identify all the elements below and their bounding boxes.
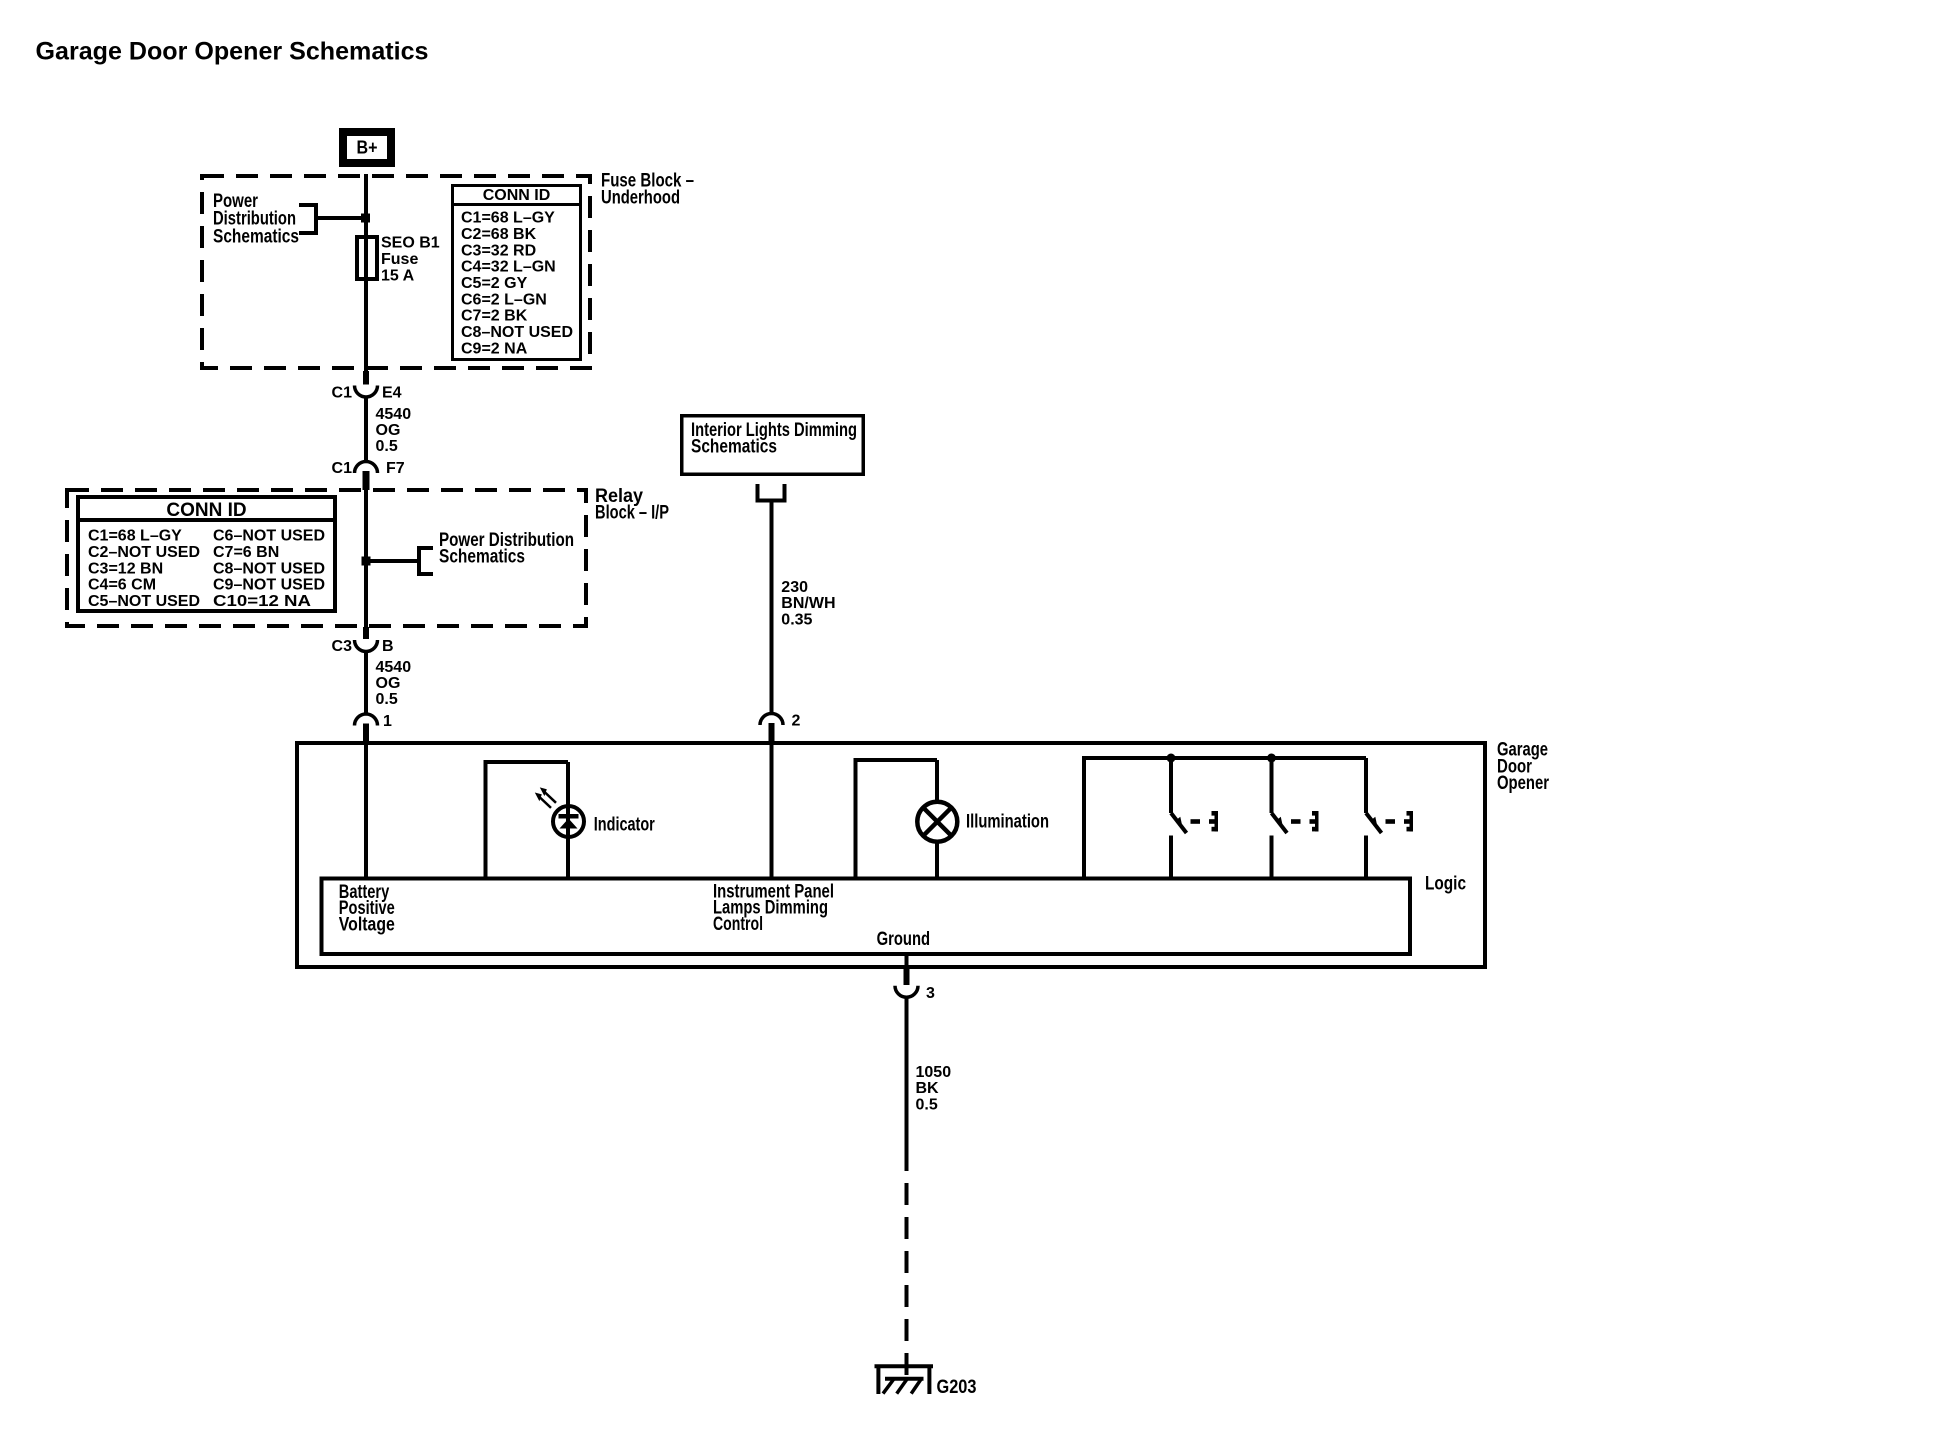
svg-text:C10=12 NA: C10=12 NA [213, 593, 312, 610]
svg-text:Control: Control [713, 914, 763, 935]
svg-text:2: 2 [792, 713, 801, 730]
svg-text:OG: OG [376, 675, 401, 692]
svg-text:230: 230 [781, 579, 808, 596]
svg-text:0.5: 0.5 [376, 691, 398, 708]
svg-text:C3=32 RD: C3=32 RD [461, 242, 536, 259]
svg-text:C1: C1 [332, 384, 353, 401]
svg-text:C4=6 CM: C4=6 CM [88, 577, 156, 594]
svg-text:CONN ID: CONN ID [166, 500, 246, 521]
svg-text:Fuse: Fuse [381, 251, 418, 268]
svg-text:C3=12 BN: C3=12 BN [88, 560, 163, 577]
svg-text:C8–NOT USED: C8–NOT USED [213, 560, 325, 577]
svg-text:BK: BK [916, 1080, 940, 1097]
svg-text:Block – I/P: Block – I/P [595, 503, 669, 524]
svg-text:C8–NOT USED: C8–NOT USED [461, 324, 573, 341]
svg-text:CONN ID: CONN ID [483, 187, 551, 204]
svg-text:F7: F7 [386, 460, 405, 477]
svg-text:C1=68 L–GY: C1=68 L–GY [461, 210, 555, 227]
svg-text:Opener: Opener [1497, 773, 1549, 794]
svg-text:Voltage: Voltage [339, 914, 395, 935]
svg-text:C7=6 BN: C7=6 BN [213, 544, 279, 561]
svg-text:C1: C1 [332, 460, 353, 477]
svg-text:G203: G203 [937, 1377, 977, 1398]
svg-text:3: 3 [926, 985, 935, 1002]
svg-text:E4: E4 [382, 384, 402, 401]
svg-text:B+: B+ [357, 138, 378, 158]
svg-text:B: B [382, 638, 394, 655]
svg-text:0.35: 0.35 [781, 611, 812, 628]
svg-text:C6–NOT USED: C6–NOT USED [213, 528, 325, 545]
svg-text:BN/WH: BN/WH [781, 595, 835, 612]
svg-text:Indicator: Indicator [594, 814, 655, 835]
svg-text:C9=2 NA: C9=2 NA [461, 340, 528, 357]
svg-text:C5–NOT USED: C5–NOT USED [88, 593, 200, 610]
svg-text:Schematics: Schematics [691, 437, 777, 458]
svg-text:OG: OG [376, 422, 401, 439]
svg-text:Logic: Logic [1425, 874, 1466, 895]
svg-text:Schematics: Schematics [439, 547, 525, 568]
svg-text:4540: 4540 [376, 406, 412, 423]
svg-text:Illumination: Illumination [966, 812, 1049, 833]
svg-text:C7=2 BK: C7=2 BK [461, 308, 528, 325]
svg-text:Schematics: Schematics [213, 227, 299, 248]
svg-text:Ground: Ground [877, 929, 931, 950]
svg-text:1050: 1050 [916, 1064, 952, 1081]
svg-text:C2=68 BK: C2=68 BK [461, 226, 537, 243]
svg-text:4540: 4540 [376, 659, 412, 676]
svg-text:C1=68 L–GY: C1=68 L–GY [88, 528, 182, 545]
svg-text:0.5: 0.5 [916, 1096, 938, 1113]
svg-text:C4=32 L–GN: C4=32 L–GN [461, 259, 556, 276]
svg-text:C9–NOT USED: C9–NOT USED [213, 577, 325, 594]
svg-text:Garage Door Opener Schematics: Garage Door Opener Schematics [36, 38, 429, 66]
svg-text:SEO B1: SEO B1 [381, 235, 440, 252]
svg-text:C3: C3 [332, 638, 353, 655]
svg-text:1: 1 [383, 713, 392, 730]
svg-text:0.5: 0.5 [376, 438, 398, 455]
svg-text:15 A: 15 A [381, 267, 415, 284]
svg-text:C5=2 GY: C5=2 GY [461, 275, 528, 292]
svg-text:C2–NOT USED: C2–NOT USED [88, 544, 200, 561]
svg-text:Underhood: Underhood [601, 187, 680, 208]
svg-text:C6=2 L–GN: C6=2 L–GN [461, 291, 547, 308]
